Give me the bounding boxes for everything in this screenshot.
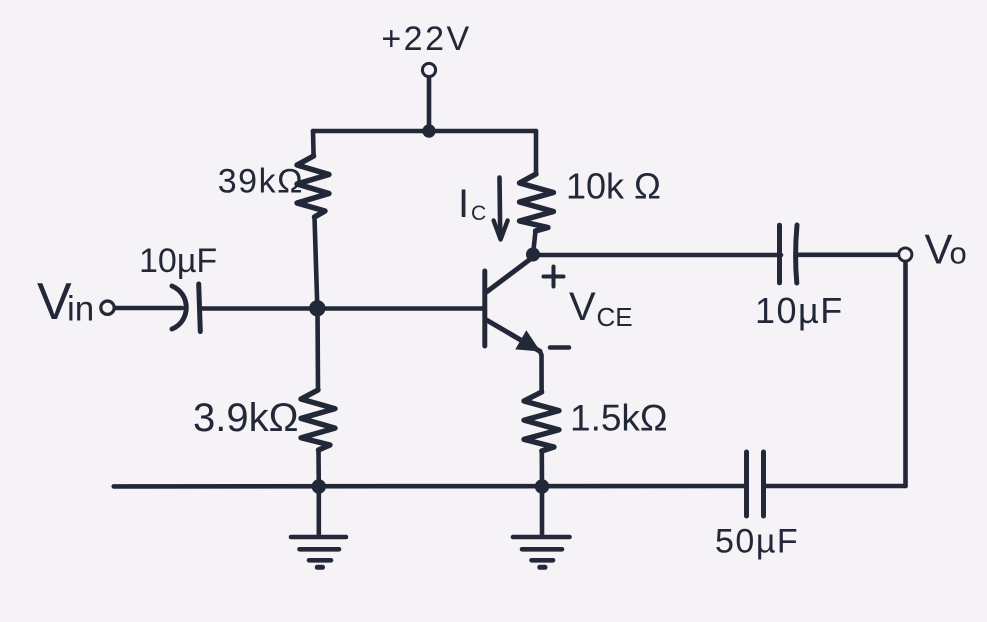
resistor R2 3.9kΩ zigzag: [301, 390, 335, 450]
svg-text:C: C: [471, 202, 486, 225]
capacitor C3 50uF right plate: [761, 452, 766, 516]
capacitor C2 10uF left plate: [777, 225, 782, 283]
ground GND1 bar1: [291, 535, 346, 540]
capacitor C2 10uF right plate: [796, 225, 797, 283]
ground GND2 tick: [540, 565, 545, 570]
svg-text:o: o: [950, 236, 967, 271]
label minus sign VCE: [550, 345, 569, 350]
ground GND1 tick: [317, 565, 322, 570]
ground GND2 bar3: [532, 558, 554, 563]
svg-text:I: I: [458, 182, 469, 226]
wire supply stub: [427, 77, 432, 131]
current arrow Ic line: [497, 178, 502, 235]
wire left column lower: [315, 309, 320, 390]
capacitor C3 50uF left plate: [744, 452, 749, 516]
wire bottom rail right: [764, 484, 906, 489]
wire right column down: [903, 261, 908, 486]
transistor Q1 emitter line: [487, 320, 541, 351]
node collector junction C: [526, 248, 540, 262]
wire right column top: [534, 131, 539, 174]
svg-text:50µF: 50µF: [715, 523, 799, 561]
terminal Vin: [101, 301, 114, 314]
wire base lead: [317, 306, 483, 311]
wire input lead right: [201, 306, 310, 311]
wire left column top: [311, 131, 316, 156]
wire to bottom rail left: [316, 450, 321, 487]
ground GND2 bar2: [522, 547, 562, 552]
svg-text:10µF: 10µF: [139, 242, 217, 280]
wire bottom rail left: [114, 484, 746, 489]
resistor R3 10kΩ zigzag: [520, 174, 554, 231]
ground GND1 bar2: [300, 547, 340, 552]
wire input lead left: [114, 306, 182, 311]
svg-text:+22V: +22V: [381, 20, 471, 58]
transistor Q1 collector line: [487, 258, 533, 293]
wire cap to Vo terminal: [797, 253, 898, 258]
ground GND2 stub: [540, 487, 545, 535]
svg-text:39kΩ: 39kΩ: [218, 163, 304, 201]
wire to bottom rail right col: [539, 451, 544, 487]
wire left column mid: [315, 217, 318, 307]
node bottom-left junction: [312, 479, 326, 493]
node base junction B: [309, 300, 325, 316]
svg-text:10µF: 10µF: [755, 290, 844, 331]
terminal Vo: [899, 248, 912, 261]
ground GND1 bar3: [309, 558, 331, 563]
current arrow Ic head barbs: [494, 221, 508, 240]
label plus sign VCE: [544, 267, 564, 287]
capacitor C1 10uF right plate: [199, 284, 201, 332]
svg-text:3.9kΩ: 3.9kΩ: [193, 396, 299, 440]
svg-text:1.5kΩ: 1.5kΩ: [570, 398, 668, 439]
wire emitter bend: [540, 351, 542, 392]
wire collector drop: [533, 231, 536, 255]
ground GND1 stub: [316, 487, 321, 534]
svg-text:in: in: [67, 290, 94, 329]
node bottom-right junction: [535, 479, 549, 493]
resistor R4 1.5kΩ zigzag: [524, 392, 559, 451]
svg-text:10k Ω: 10k Ω: [566, 166, 661, 207]
node supply junction: [422, 124, 435, 137]
svg-text:V: V: [925, 226, 953, 273]
svg-text:CE: CE: [597, 302, 633, 332]
ground GND2 bar1: [513, 535, 570, 540]
svg-text:V: V: [569, 285, 596, 329]
resistor R1 39kΩ zigzag: [297, 156, 329, 217]
transistor Q1 base bar: [482, 271, 487, 346]
capacitor C1 10uF curved plate: [172, 286, 186, 329]
terminal +22V: [422, 63, 435, 76]
wire top rail: [313, 129, 536, 134]
transistor Q1 emitter arrowhead: [515, 330, 540, 351]
wire collector to output cap: [533, 253, 781, 258]
